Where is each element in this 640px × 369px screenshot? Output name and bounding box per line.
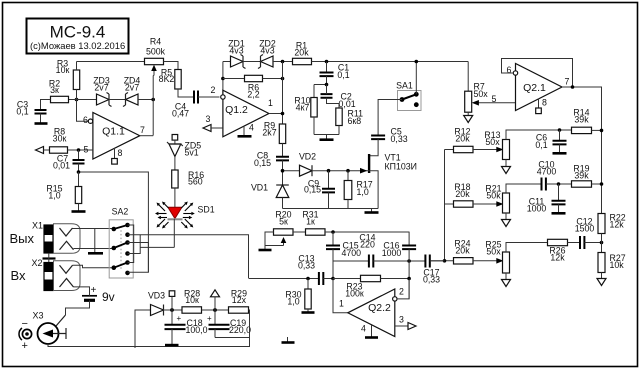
svg-text:X1: X1	[32, 221, 43, 231]
capacitor C16	[408, 232, 410, 245]
ground arrow under R13	[502, 167, 511, 174]
capacitor C19 electrolytic	[214, 310, 216, 324]
svg-text:0,33: 0,33	[298, 261, 315, 271]
node: pin2 vertical	[222, 62, 224, 95]
wire: C4 to Q1.2 pin2	[198, 96, 220, 98]
svg-text:2v7: 2v7	[94, 83, 108, 93]
capacitor C8	[282, 144, 284, 157]
svg-text:3: 3	[206, 114, 211, 124]
svg-text:+: +	[177, 314, 182, 323]
capacitor C14	[333, 260, 369, 262]
svg-text:Q1.2: Q1.2	[225, 104, 248, 116]
svg-text:1000: 1000	[527, 204, 547, 214]
svg-text:30к: 30к	[53, 134, 67, 144]
wire: R4 wiper vertical down to Q1.1 output	[152, 76, 154, 136]
gate rail y=170	[283, 170, 300, 172]
bottom rail from X3	[48, 338, 250, 347]
resistor R17	[347, 171, 349, 181]
zener ZD4	[126, 94, 139, 105]
resistor R1	[293, 58, 312, 64]
wire: R1 right to top rail	[312, 61, 469, 63]
op-amp Q2.2 (mirrored)	[333, 279, 348, 313]
capacitor C6	[558, 128, 562, 132]
svg-text:1,0: 1,0	[48, 191, 60, 201]
pin 8 pad of Q1.1	[114, 148, 116, 159]
wire: R4 right to R5 top	[164, 62, 179, 70]
capacitor C7	[78, 150, 80, 160]
svg-text:КП103И: КП103И	[385, 162, 417, 172]
svg-text:Q1.1: Q1.1	[102, 126, 125, 138]
svg-text:4700: 4700	[342, 248, 362, 258]
resistor R15	[78, 172, 80, 187]
svg-text:(с)Можаев 13.02.2016: (с)Можаев 13.02.2016	[30, 40, 125, 51]
diode VD2	[300, 165, 313, 176]
capacitor C4	[194, 91, 198, 104]
svg-text:500k: 500k	[146, 47, 166, 57]
svg-text:5к: 5к	[279, 217, 288, 227]
svg-text:4v3: 4v3	[260, 46, 274, 56]
op-amp Q1.2	[223, 90, 269, 137]
svg-text:4v3: 4v3	[229, 46, 243, 56]
wire: R8 to pin5	[68, 149, 93, 151]
svg-text:VD1: VD1	[251, 183, 268, 193]
resistor R22	[598, 214, 605, 234]
svg-text:8: 8	[542, 98, 547, 108]
wire: R5 bottom to C4	[178, 89, 194, 97]
bus riser from C17 node	[444, 150, 446, 261]
svg-text:VD2: VD2	[299, 152, 316, 162]
zener ZD3	[77, 99, 97, 101]
resistor R6	[223, 78, 245, 80]
svg-text:+: +	[91, 285, 97, 296]
wire: SD1 branch node row y=278	[249, 278, 319, 280]
resistor R9	[279, 124, 285, 144]
svg-text:0,1: 0,1	[16, 107, 28, 117]
svg-text:4700: 4700	[537, 167, 557, 177]
pin 8 pad Q2.1	[538, 99, 540, 109]
svg-text:R4: R4	[150, 37, 161, 47]
zener ZD5	[169, 144, 181, 157]
svg-text:1000: 1000	[382, 248, 402, 258]
svg-text:20k: 20k	[455, 246, 470, 256]
node A: R2/R3/ZD3 junction	[75, 98, 79, 102]
small ground right of C19	[287, 337, 289, 342]
svg-text:9v: 9v	[102, 290, 115, 304]
zener ZD2	[261, 56, 274, 67]
capacitor C12	[580, 236, 584, 249]
resistor R27	[598, 253, 605, 273]
svg-text:8K2: 8K2	[159, 74, 175, 84]
svg-text:Q2.2: Q2.2	[368, 302, 391, 314]
svg-text:2v7: 2v7	[125, 83, 139, 93]
input arrow left of R8	[36, 147, 44, 154]
wire: Q1.1 output	[140, 135, 153, 137]
svg-text:VD3: VD3	[148, 291, 165, 301]
feedback loop Q2.1	[502, 59, 573, 88]
svg-text:0,15: 0,15	[254, 158, 271, 168]
svg-text:220,0: 220,0	[229, 325, 251, 335]
wire: pin1 net vertical	[269, 113, 283, 115]
svg-text:1,0: 1,0	[287, 297, 299, 307]
ground tap between jacks	[94, 229, 96, 253]
svg-text:Q2.1: Q2.1	[523, 82, 546, 94]
svg-text:5: 5	[492, 94, 497, 104]
svg-text:39k: 39k	[574, 171, 589, 181]
svg-text:X3: X3	[32, 311, 43, 321]
resistor R19	[572, 181, 592, 187]
svg-text:SD1: SD1	[198, 205, 215, 215]
svg-text:1к: 1к	[306, 217, 315, 227]
svg-text:10к: 10к	[185, 295, 199, 305]
svg-text:2: 2	[211, 85, 216, 95]
resistor R3	[73, 70, 79, 90]
svg-text:560: 560	[188, 177, 203, 187]
svg-text:6: 6	[83, 115, 88, 125]
ground under R15	[72, 210, 86, 213]
wire pin3 output arrow	[395, 325, 408, 327]
resistor R26	[548, 239, 568, 245]
svg-text:0,1: 0,1	[337, 70, 349, 80]
capacitor C18 electrolytic	[171, 310, 173, 324]
svg-text:1500: 1500	[575, 224, 595, 234]
ground arrow under R27	[597, 279, 606, 286]
svg-text:12k: 12k	[610, 220, 625, 230]
capacitor C5	[371, 136, 385, 140]
svg-text:0,33: 0,33	[423, 275, 440, 285]
capacitor C1	[325, 60, 329, 64]
capacitor C10	[542, 178, 546, 191]
svg-text:20k: 20k	[455, 189, 470, 199]
wire: R3 top rail to R4	[77, 61, 145, 63]
svg-text:1,0: 1,0	[357, 187, 369, 197]
zener ZD1	[223, 61, 231, 63]
svg-text:12k: 12k	[550, 253, 565, 263]
resistor R8	[50, 147, 68, 153]
capacitor C2	[321, 94, 333, 98]
svg-text:3к: 3к	[50, 85, 59, 95]
svg-text:2k7: 2k7	[262, 128, 276, 138]
wire: junction down to pin6	[77, 100, 89, 122]
ground pin4	[243, 126, 245, 136]
svg-text:100,0: 100,0	[186, 325, 208, 335]
svg-text:50x: 50x	[486, 247, 501, 257]
wire between ZD3 ZD4	[109, 99, 126, 101]
svg-text:50k: 50k	[486, 191, 501, 201]
ground pin4	[371, 325, 373, 337]
resistor R11	[336, 108, 342, 126]
potentiometer R13	[503, 140, 510, 160]
SA2 right-side wiring	[128, 225, 134, 263]
ground under C3	[35, 122, 48, 125]
op-amp Q1.1	[93, 113, 140, 160]
wire between ZD1 ZD2	[243, 61, 261, 63]
svg-text:10k: 10k	[610, 260, 625, 270]
svg-text:6к8: 6к8	[348, 116, 362, 126]
capacitor C9	[328, 171, 330, 189]
ground arrow under R25	[502, 280, 511, 287]
wire: top rail corner down to R7	[467, 62, 469, 92]
wires X1 to SA2	[73, 228, 114, 230]
svg-text:4к7: 4к7	[296, 103, 310, 113]
svg-text:+: +	[22, 340, 28, 352]
svg-text:+: +	[207, 314, 212, 323]
svg-text:12х: 12х	[232, 295, 247, 305]
wire: C7 bottom node	[79, 164, 149, 273]
resistor R28	[182, 307, 202, 313]
svg-text:0,01: 0,01	[53, 161, 70, 171]
svg-text:3: 3	[399, 315, 404, 325]
svg-text:20k: 20k	[294, 48, 309, 58]
wire: Q2.1 output to bus	[562, 87, 602, 214]
svg-text:7: 7	[140, 125, 145, 135]
svg-text:50x: 50x	[474, 89, 489, 99]
capacitor C13	[319, 272, 323, 285]
resistor R16	[172, 170, 178, 188]
resistor R23	[333, 278, 361, 280]
svg-text:SA1: SA1	[396, 81, 413, 91]
svg-text:8: 8	[118, 148, 123, 158]
svg-text:Вх: Вх	[11, 268, 27, 283]
bottom rail of VT1 cell	[283, 208, 379, 210]
svg-text:X2: X2	[31, 258, 42, 268]
potentiometer R21	[503, 193, 510, 213]
bottom node row to ground	[314, 135, 339, 140]
row2: resistor R18	[445, 203, 454, 205]
svg-text:20k: 20k	[455, 134, 470, 144]
pad above junction	[169, 291, 175, 297]
op-amp Q2.1	[516, 64, 563, 111]
node row R10/C2	[314, 84, 327, 86]
title box	[27, 19, 129, 54]
wire R31 right to top rail of C-network	[325, 231, 410, 233]
diode VD1	[282, 171, 284, 185]
resistor R30	[306, 277, 310, 281]
wire: SA1 left to C5	[378, 100, 402, 136]
wire: ZD2 to R1	[273, 61, 293, 63]
resistor R2	[51, 96, 69, 102]
transistor VT1	[368, 154, 370, 173]
ground arrow under R7	[464, 116, 473, 123]
svg-text:МС-9.4: МС-9.4	[50, 23, 106, 42]
potentiometer R25	[503, 252, 510, 273]
wire R16 to SD1	[174, 188, 176, 207]
wire: ZD4 right to pin7 vertical	[138, 99, 153, 101]
wire: SD1 down to SA2 row	[173, 219, 175, 247]
svg-text:−: −	[22, 318, 28, 330]
pad above ZD5	[172, 135, 178, 141]
svg-text:220: 220	[360, 240, 375, 250]
LED rays	[155, 202, 195, 229]
wire: C3 to R2 left	[41, 100, 51, 110]
capacitor C3	[35, 110, 47, 114]
bar under X1 plug	[43, 257, 56, 259]
wire: R2 right to junction	[69, 99, 97, 101]
svg-text:4: 4	[249, 123, 254, 133]
supply arrow pad	[211, 290, 220, 297]
svg-text:1: 1	[339, 299, 344, 309]
row3: resistor R24	[430, 260, 454, 262]
capacitor C17	[425, 255, 429, 268]
ground arrow under R21	[502, 220, 511, 227]
svg-text:SA2: SA2	[112, 207, 129, 217]
resistor R5	[175, 70, 181, 90]
resistor R14	[572, 127, 592, 133]
potentiometer R7	[465, 91, 472, 112]
svg-text:0,1: 0,1	[535, 140, 547, 150]
resistor R10	[313, 85, 315, 98]
svg-text:Вых: Вых	[10, 231, 35, 246]
wire: SA1 up to rail	[415, 62, 417, 95]
svg-text:2: 2	[399, 287, 404, 297]
potentiometer R4	[145, 58, 164, 64]
svg-text:2,2: 2,2	[247, 90, 259, 100]
svg-text:1: 1	[268, 98, 273, 108]
wire ZD5 to R16	[174, 157, 176, 171]
svg-text:0,47: 0,47	[172, 109, 189, 119]
input arrow pin3	[203, 125, 211, 132]
svg-text:50x: 50x	[485, 137, 500, 147]
resistor R29	[229, 307, 249, 313]
svg-text:4: 4	[361, 324, 366, 334]
capacitor C15	[332, 232, 334, 245]
LED SD1	[168, 207, 182, 218]
svg-text:39k: 39k	[574, 115, 589, 125]
capacitor C11	[558, 184, 560, 201]
svg-text:7: 7	[565, 77, 570, 87]
svg-text:0,15: 0,15	[304, 185, 321, 195]
row1: resistor R12	[445, 149, 454, 151]
ground under VT1 cell	[365, 211, 379, 214]
svg-text:0,33: 0,33	[391, 134, 408, 144]
wire: pin2	[397, 279, 409, 299]
svg-text:100к: 100к	[345, 289, 364, 299]
svg-text:10к: 10к	[56, 65, 70, 75]
wire X2 to SA2 pole3	[73, 265, 114, 267]
wire R20 to R31	[293, 231, 306, 233]
svg-text:5v1: 5v1	[185, 148, 199, 158]
